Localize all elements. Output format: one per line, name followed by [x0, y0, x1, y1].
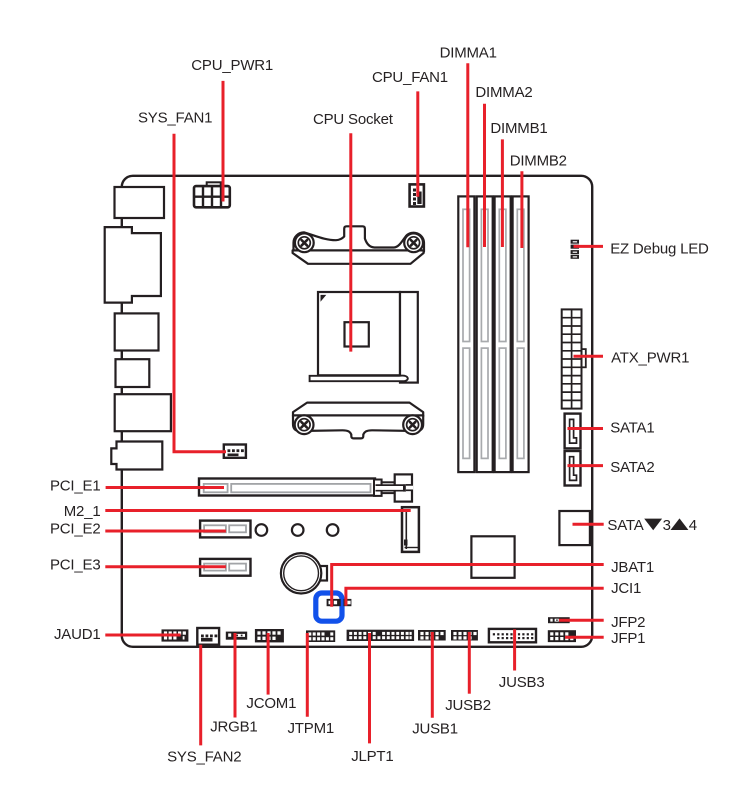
leader line JFP2: [559, 619, 604, 622]
rear I/O port P5: [115, 394, 171, 431]
leader line JCOM1: [267, 633, 270, 695]
leader line EZ Debug LED: [574, 245, 604, 248]
svg-text:SATA2: SATA2: [610, 459, 654, 476]
motherboard outline: [122, 176, 592, 647]
leader line DIMMB1: [501, 139, 504, 247]
JUSB1 connector: [418, 630, 446, 641]
SATA1 connector: [565, 414, 581, 449]
M2_1 slot: [402, 507, 419, 552]
JCOM1 connector: [255, 629, 284, 642]
svg-text:CPU Socket: CPU Socket: [313, 111, 394, 128]
JCI1 connector: [344, 599, 352, 606]
svg-text:JTPM1: JTPM1: [288, 720, 335, 737]
leader line JRGB1: [234, 633, 237, 718]
leader line CPU_FAN1: [416, 91, 419, 196]
svg-text:ATX_PWR1: ATX_PWR1: [611, 349, 689, 366]
SYS_FAN1 connector: [224, 445, 246, 458]
SATA2 connector: [565, 451, 581, 486]
DIMM slot DIMMA1: [458, 196, 474, 472]
leader line JFP1: [565, 636, 604, 639]
svg-text:JCOM1: JCOM1: [246, 695, 296, 712]
DIMM slot DIMMB1: [495, 196, 511, 472]
mounting hole A: [256, 524, 268, 536]
svg-text:EZ Debug LED: EZ Debug LED: [610, 241, 709, 258]
SATA3/4 connector square: [559, 511, 590, 545]
ATX_PWR1 connector: [562, 309, 586, 408]
svg-text:CPU_FAN1: CPU_FAN1: [372, 69, 448, 86]
svg-text:DIMMB2: DIMMB2: [510, 153, 567, 170]
svg-text:SATA: SATA: [607, 517, 643, 534]
rear I/O port P2 (VGA): [105, 227, 161, 303]
leader line DIMMA2: [483, 104, 486, 247]
leader line SYS_FAN2: [199, 645, 202, 746]
JRGB1 connector: [226, 632, 247, 640]
svg-text:DIMMA1: DIMMA1: [440, 45, 497, 62]
leader line DIMMA1: [466, 63, 469, 247]
SYS_FAN2 connector: [197, 628, 219, 645]
leader line SATA3/4: [573, 523, 604, 526]
leader line SATA2: [568, 464, 604, 467]
leader line PCI_E1: [106, 486, 224, 489]
leader line JAUD1: [105, 634, 180, 637]
battery: [281, 553, 327, 593]
JFP2 connector: [548, 617, 570, 623]
leader line PCI_E2: [105, 530, 226, 533]
leader line PCI_E3: [105, 565, 226, 568]
JAUD1 connector: [162, 629, 189, 641]
leader line DIMMB2: [520, 171, 523, 248]
CPU bottom retention bracket: [293, 403, 423, 439]
svg-text:PCI_E3: PCI_E3: [50, 557, 101, 574]
JUSB2 connector: [451, 630, 478, 641]
svg-text:JFP1: JFP1: [611, 630, 645, 647]
DIMM slot DIMMA2: [477, 196, 493, 472]
svg-text:JBAT1: JBAT1: [611, 559, 654, 576]
svg-text:4: 4: [689, 517, 697, 534]
svg-text:SYS_FAN2: SYS_FAN2: [167, 749, 241, 766]
JFP1 connector: [548, 630, 576, 642]
leader line JBAT1: [332, 565, 604, 607]
svg-text:JUSB2: JUSB2: [445, 697, 491, 714]
svg-text:M2_1: M2_1: [64, 503, 101, 520]
CPU top retention bracket: [293, 226, 424, 263]
JTPM1 connector: [306, 630, 335, 642]
svg-text:JUSB1: JUSB1: [412, 721, 458, 738]
chipset square: [471, 536, 514, 578]
CPU_FAN1 connector: [410, 184, 424, 206]
svg-text:DIMMB1: DIMMB1: [490, 120, 547, 137]
svg-text:JLPT1: JLPT1: [351, 748, 393, 765]
JLPT1 connector: [347, 630, 415, 641]
svg-text:3: 3: [663, 517, 671, 534]
svg-text:PCI_E2: PCI_E2: [50, 521, 101, 538]
rear I/O port P6: [111, 442, 162, 470]
leader line CPU_PWR1: [222, 81, 225, 202]
PCI_E2 slot: [200, 521, 250, 538]
JUSB3 connector: [489, 629, 536, 642]
leader line ATX_PWR1: [574, 355, 604, 358]
EZ Debug LED: [571, 240, 579, 259]
DIMM slot DIMMB2: [513, 196, 529, 472]
svg-text:JFP2: JFP2: [611, 614, 645, 631]
rear I/O port P3: [115, 313, 159, 350]
rear I/O port P4: [116, 359, 150, 387]
svg-text:JUSB3: JUSB3: [499, 674, 545, 691]
JBAT1 jumper: [327, 599, 341, 606]
leader line JCI1: [346, 588, 604, 606]
PCI_E3 slot: [200, 559, 250, 576]
leader line JUSB3: [513, 629, 516, 670]
rear I/O port P1: [115, 187, 165, 218]
svg-text:PCI_E1: PCI_E1: [50, 478, 101, 495]
svg-text:DIMMA2: DIMMA2: [475, 84, 532, 101]
svg-text:SYS_FAN1: SYS_FAN1: [138, 110, 212, 127]
leader line SATA1: [568, 427, 604, 430]
PCI_E1 slot: [199, 479, 375, 496]
leader line SYS_FAN1: [174, 134, 226, 452]
leader line JUSB2: [468, 632, 471, 694]
leader line JTPM1: [306, 633, 309, 717]
mounting hole C: [327, 524, 339, 536]
PCI_E1 latch: [374, 474, 413, 501]
leader line JLPT1: [368, 633, 371, 743]
leader line JUSB1: [431, 632, 434, 718]
mounting hole B: [292, 524, 304, 536]
leader line CPU Socket: [349, 133, 352, 351]
svg-text:JRGB1: JRGB1: [210, 719, 257, 736]
svg-text:SATA1: SATA1: [610, 420, 654, 437]
svg-text:CPU_PWR1: CPU_PWR1: [191, 57, 273, 74]
leader line M2_1: [105, 509, 410, 512]
svg-text:JAUD1: JAUD1: [54, 626, 101, 643]
CPU socket body: [310, 292, 418, 383]
blue highlight box around JBAT1: [316, 593, 342, 621]
CPU_PWR1 connector: [194, 182, 230, 207]
svg-text:JCI1: JCI1: [611, 580, 641, 597]
